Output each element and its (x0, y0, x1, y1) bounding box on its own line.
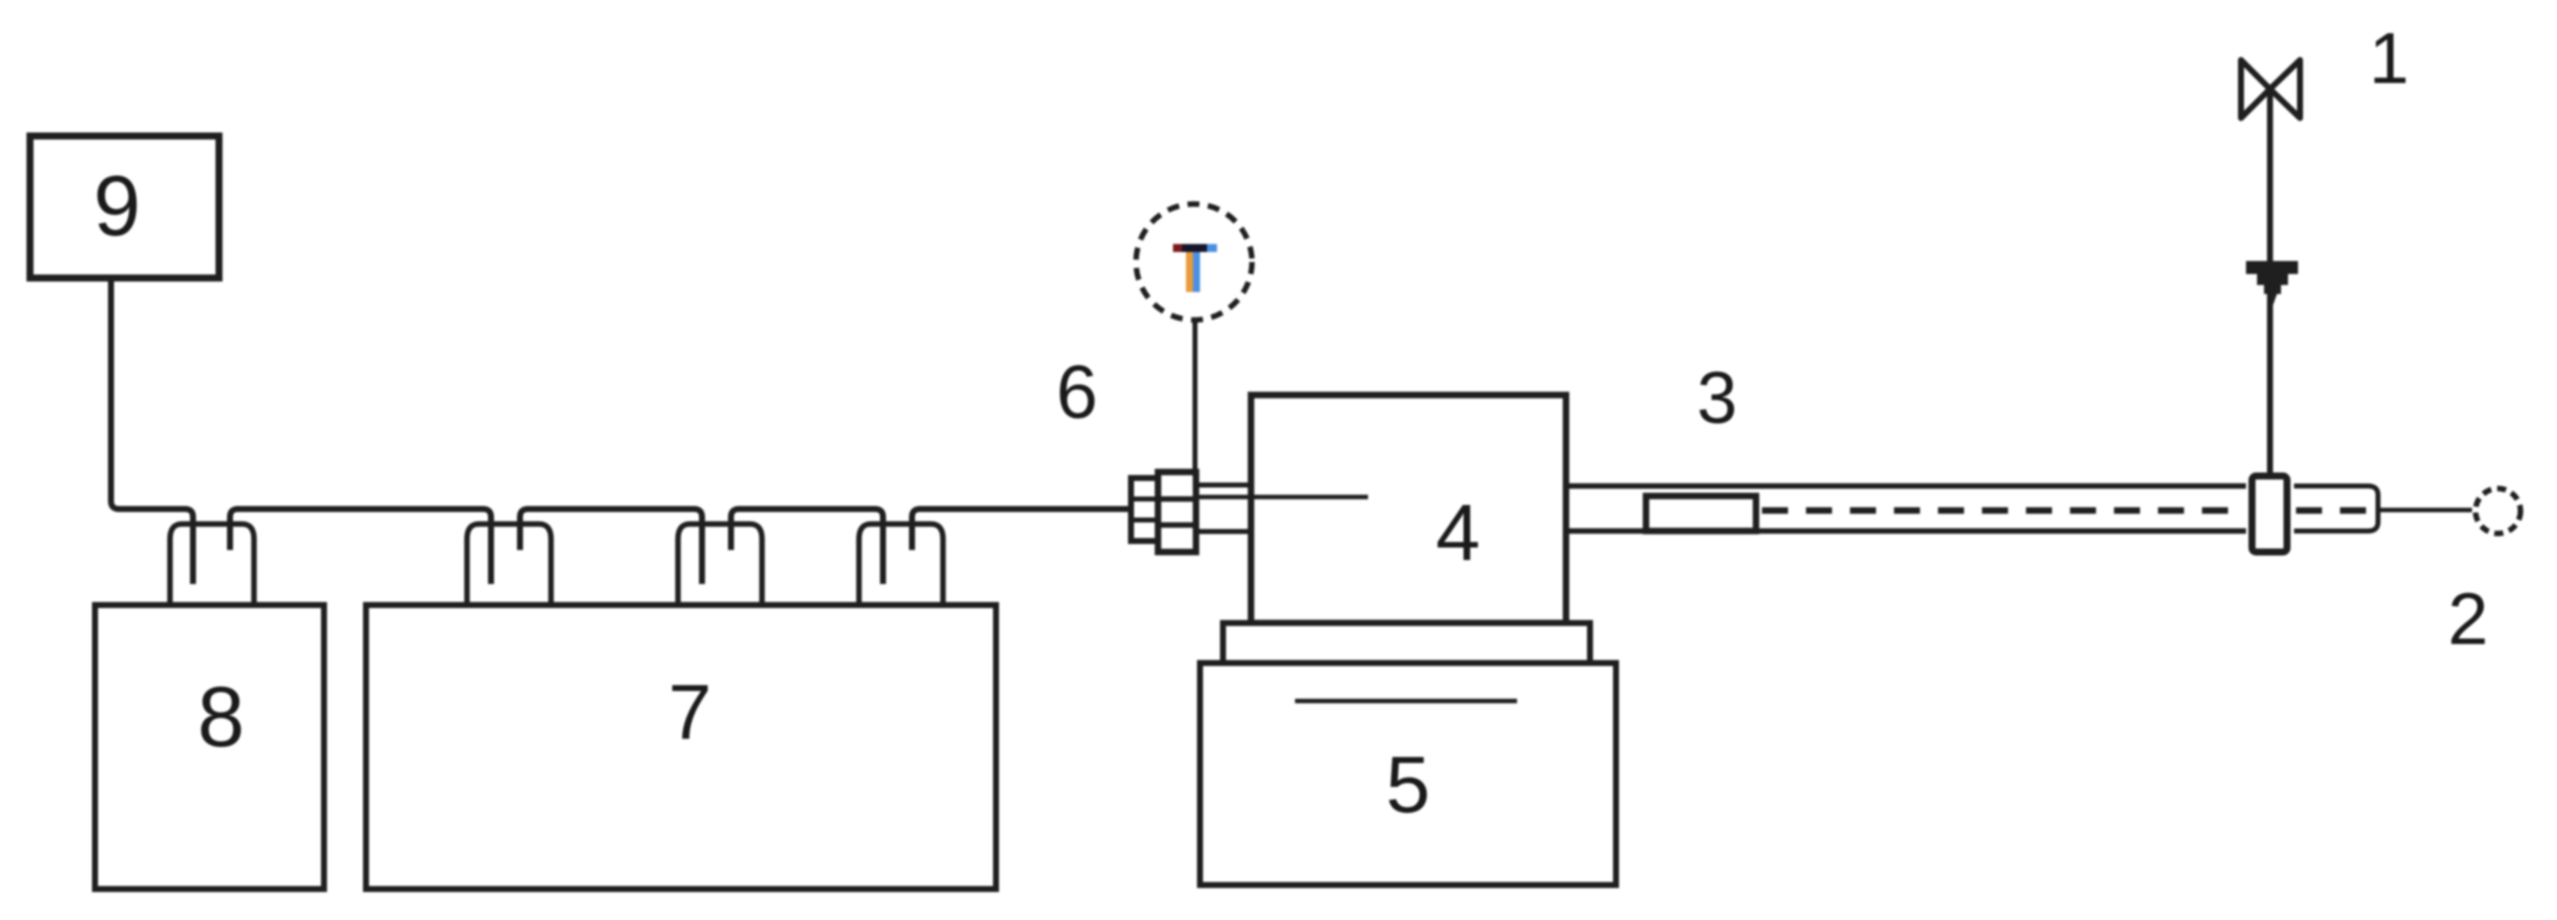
svg-text:1: 1 (2369, 19, 2409, 99)
svg-text:4: 4 (1436, 488, 1481, 577)
svg-text:3: 3 (1697, 358, 1738, 439)
svg-text:9: 9 (93, 159, 140, 254)
svg-text:6: 6 (1056, 350, 1098, 434)
svg-text:8: 8 (197, 670, 244, 765)
svg-text:7: 7 (668, 668, 711, 756)
svg-text:5: 5 (1386, 740, 1431, 829)
svg-text:2: 2 (2448, 579, 2489, 660)
